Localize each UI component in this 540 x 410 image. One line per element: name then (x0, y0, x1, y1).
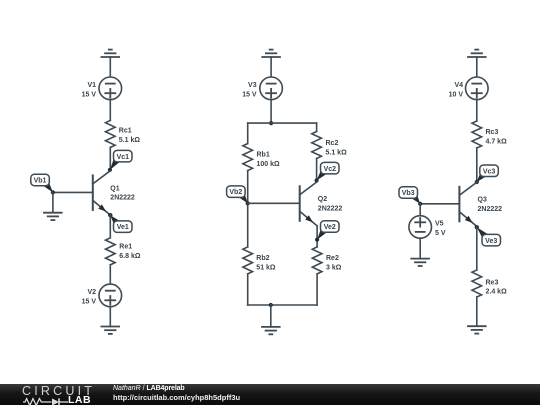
wire ground to V4 (476, 57, 478, 77)
Rc2 value label (326, 140, 348, 156)
Re3 value label (486, 279, 508, 295)
svg-text:15 V: 15 V (82, 91, 97, 98)
svg-text:5.1 kΩ: 5.1 kΩ (119, 137, 141, 144)
wire Rc2 to Q2 collector (316, 159, 318, 182)
wire Rb2 to bottom rail (247, 274, 249, 305)
wire supply rail (248, 122, 317, 124)
svg-text:5.1 kΩ: 5.1 kΩ (326, 149, 348, 156)
wire Q3 emitter to Re3 (476, 226, 478, 270)
node Vc1 label (108, 150, 132, 172)
svg-text:2N2222: 2N2222 (318, 206, 343, 213)
svg-text:2N2222: 2N2222 (478, 206, 503, 213)
svg-text:15 V: 15 V (82, 299, 97, 306)
wire Re2 to bottom rail (316, 274, 318, 305)
svg-text:Ve2: Ve2 (324, 224, 336, 231)
resistor Rb2 (243, 247, 253, 274)
svg-text:Re2: Re2 (326, 255, 339, 262)
node Vb3 label (399, 187, 422, 206)
svg-text:3 kΩ: 3 kΩ (326, 264, 342, 271)
wire Q1 emitter to Re1 (109, 215, 111, 238)
svg-text:V1: V1 (87, 82, 96, 89)
svg-text:Vc2: Vc2 (324, 166, 337, 173)
wire V1 to Rc1 (109, 100, 111, 121)
svg-text:V4: V4 (454, 82, 463, 89)
svg-text:4.7 kΩ: 4.7 kΩ (486, 138, 508, 145)
svg-text:2N2222: 2N2222 (110, 195, 135, 202)
voltage source V5 (409, 216, 432, 239)
ground (top of circuit 1) (101, 50, 121, 57)
voltage source V4 (466, 77, 489, 100)
svg-text:Rb1: Rb1 (257, 152, 270, 159)
svg-text:Q3: Q3 (478, 197, 487, 204)
ground (bottom of circuit 1) (101, 327, 121, 334)
node Vb1 label (31, 174, 55, 194)
ground (bottom of circuit 2) (261, 327, 281, 334)
svg-text:Vb2: Vb2 (229, 189, 242, 196)
ground (top of circuit 3) (467, 50, 487, 57)
resistor Re2 (312, 247, 322, 274)
wire ground to V1 (109, 57, 111, 77)
V2 value label (82, 289, 97, 305)
svg-text:Rc3: Rc3 (486, 129, 499, 136)
svg-text:Vc3: Vc3 (483, 168, 496, 175)
svg-text:V5: V5 (435, 221, 444, 228)
transistor Q1 (NPN) (93, 171, 110, 215)
resistor Rc3 (472, 121, 482, 148)
wire rail to Rb1 (247, 123, 249, 144)
V5 value label (435, 221, 446, 237)
node Vb2 label (227, 186, 250, 206)
CircuitLab logo (22, 385, 95, 397)
wire base of Q1 (53, 191, 93, 193)
junction Q1 emitter / Ve1 (108, 213, 112, 217)
wire Re3 to ground (476, 297, 478, 326)
svg-text:51 kΩ: 51 kΩ (256, 264, 276, 271)
junction Q3 emitter / Ve3 (475, 225, 479, 229)
svg-text:5 V: 5 V (435, 230, 446, 237)
svg-text:100 kΩ: 100 kΩ (257, 161, 281, 168)
wire ground to V3 (270, 57, 272, 77)
svg-text:2.4 kΩ: 2.4 kΩ (486, 289, 508, 296)
svg-text:6.8 kΩ: 6.8 kΩ (119, 253, 141, 260)
node Ve2 label (315, 221, 339, 242)
footer text (113, 384, 240, 405)
svg-text:Vb1: Vb1 (34, 178, 47, 185)
resistor Rc1 (106, 120, 116, 147)
Rc1 value label (119, 128, 141, 144)
svg-text:Re3: Re3 (486, 279, 499, 286)
wire bottom rail (248, 304, 317, 306)
Rc3 value label (486, 129, 508, 145)
svg-text:Vb3: Vb3 (402, 190, 415, 197)
resistor Rb1 (243, 144, 253, 171)
Rb2 value label (256, 255, 276, 271)
footer bar (0, 384, 540, 405)
V3 value label (242, 82, 257, 98)
node Vc3 label (475, 165, 499, 184)
Q3 name label (478, 197, 503, 213)
wire rail to Rc2 (316, 123, 318, 131)
resistor Rc2 (312, 132, 322, 159)
junction bottom rail (269, 303, 273, 307)
svg-text:V2: V2 (87, 289, 96, 296)
junction supply rail (269, 121, 273, 125)
svg-text:Ve1: Ve1 (117, 224, 129, 231)
node Ve3 label (475, 225, 501, 246)
wire V5 to ground (419, 238, 421, 259)
svg-text:15 V: 15 V (242, 91, 257, 98)
Re2 value label (326, 255, 342, 271)
wire Rc3 to Q3 collector (476, 148, 478, 182)
ground (top of circuit 2) (261, 50, 281, 57)
Re1 value label (119, 244, 141, 260)
svg-text:Rb2: Rb2 (256, 255, 269, 262)
voltage source V2 (99, 284, 122, 307)
Q2 name label (318, 196, 343, 212)
wire V2 to ground (109, 307, 111, 327)
svg-text:Q1: Q1 (110, 185, 119, 192)
wire Rc1 to Q1 collector (109, 147, 111, 170)
node Vc2 label (315, 162, 340, 182)
svg-text:Re1: Re1 (119, 244, 132, 251)
svg-text:10 V: 10 V (449, 91, 464, 98)
svg-text:Ve3: Ve3 (485, 238, 497, 245)
wire base of Q3 (420, 203, 459, 205)
ground (below V5) (410, 259, 430, 266)
wire V4 to Rc3 (476, 100, 478, 121)
wire V3 to supply rail (270, 100, 272, 124)
svg-text:Vc1: Vc1 (117, 154, 130, 161)
ground (bottom of circuit 3) (467, 326, 487, 333)
voltage source V1 (99, 77, 122, 100)
svg-text:V3: V3 (248, 82, 257, 89)
wire Re1 to V2 (109, 265, 111, 284)
svg-text:Q2: Q2 (318, 196, 327, 203)
wire Rb1 to Rb2 (247, 171, 249, 247)
node Ve1 label (108, 213, 132, 232)
wire base of Q2 (248, 202, 300, 204)
svg-text:Rc1: Rc1 (119, 128, 132, 135)
wire rail to ground (270, 305, 272, 327)
svg-text:Rc2: Rc2 (326, 140, 339, 147)
Rb1 value label (257, 152, 281, 168)
V4 value label (449, 82, 464, 98)
voltage source V3 (260, 77, 283, 100)
resistor Re1 (106, 238, 116, 265)
V1 value label (82, 82, 97, 98)
transistor Q3 (NPN) (459, 182, 476, 226)
resistor Re3 (472, 270, 482, 297)
transistor Q2 (NPN) (300, 182, 317, 226)
wire Q2 emitter to Re2 (316, 226, 318, 247)
wire Vb3 to V5 (419, 204, 421, 216)
ground (base of Q1) (43, 213, 63, 220)
Q1 name label (110, 185, 135, 201)
wire Vb1 to ground (52, 192, 54, 212)
